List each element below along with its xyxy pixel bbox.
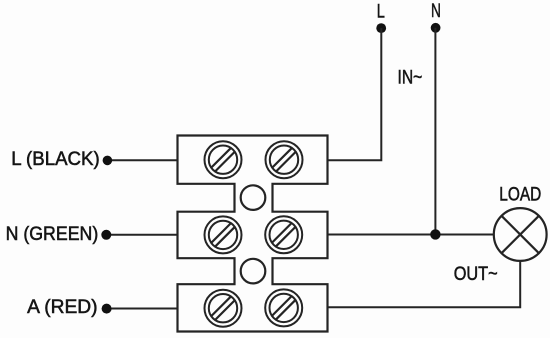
svg-text:LOAD: LOAD bbox=[499, 184, 541, 205]
screw terminal row2 right bbox=[265, 216, 302, 253]
screw terminal row1 right bbox=[266, 141, 303, 178]
terminal block TB1 outline bbox=[178, 136, 328, 332]
mounting hole circle between row1 and row2 bbox=[241, 185, 266, 210]
svg-text:L (BLACK): L (BLACK) bbox=[11, 149, 100, 170]
screw terminal row2 left bbox=[205, 216, 242, 253]
wire: A (RED) lead to block row3 bbox=[106, 308, 178, 310]
svg-text:IN~: IN~ bbox=[398, 68, 423, 89]
screw terminal row1 left bbox=[205, 141, 242, 178]
svg-text:OUT~: OUT~ bbox=[454, 263, 498, 285]
mounting hole circle between row2 and row3 bbox=[241, 259, 266, 284]
node dot: N supply terminal bbox=[431, 23, 441, 33]
node dot: L (BLACK) terminal bbox=[103, 156, 113, 166]
wire: load bottom to block row3 right bbox=[328, 261, 521, 307]
wire: block row2 right to load bbox=[328, 234, 494, 236]
svg-text:L: L bbox=[377, 1, 385, 23]
node dot: N (GREEN) terminal bbox=[101, 230, 111, 240]
node dot: A (RED) terminal bbox=[102, 304, 112, 314]
lamp LOAD symbol bbox=[494, 208, 547, 261]
wire: N (GREEN) lead to block row2 bbox=[106, 234, 178, 236]
svg-text:A (RED): A (RED) bbox=[27, 297, 98, 318]
svg-text:N: N bbox=[431, 0, 441, 22]
screw terminal row3 right bbox=[265, 289, 302, 326]
svg-text:N (GREEN): N (GREEN) bbox=[6, 224, 99, 245]
wire: N supply drop to output junction bbox=[434, 28, 436, 235]
screw terminal row3 left bbox=[205, 290, 242, 327]
wire: L (BLACK) lead to block row1 bbox=[107, 159, 178, 161]
wire: L supply drop to block row1 right bbox=[328, 28, 382, 160]
node dot: L supply terminal bbox=[376, 23, 386, 33]
junction dot: N to output bbox=[430, 229, 440, 239]
